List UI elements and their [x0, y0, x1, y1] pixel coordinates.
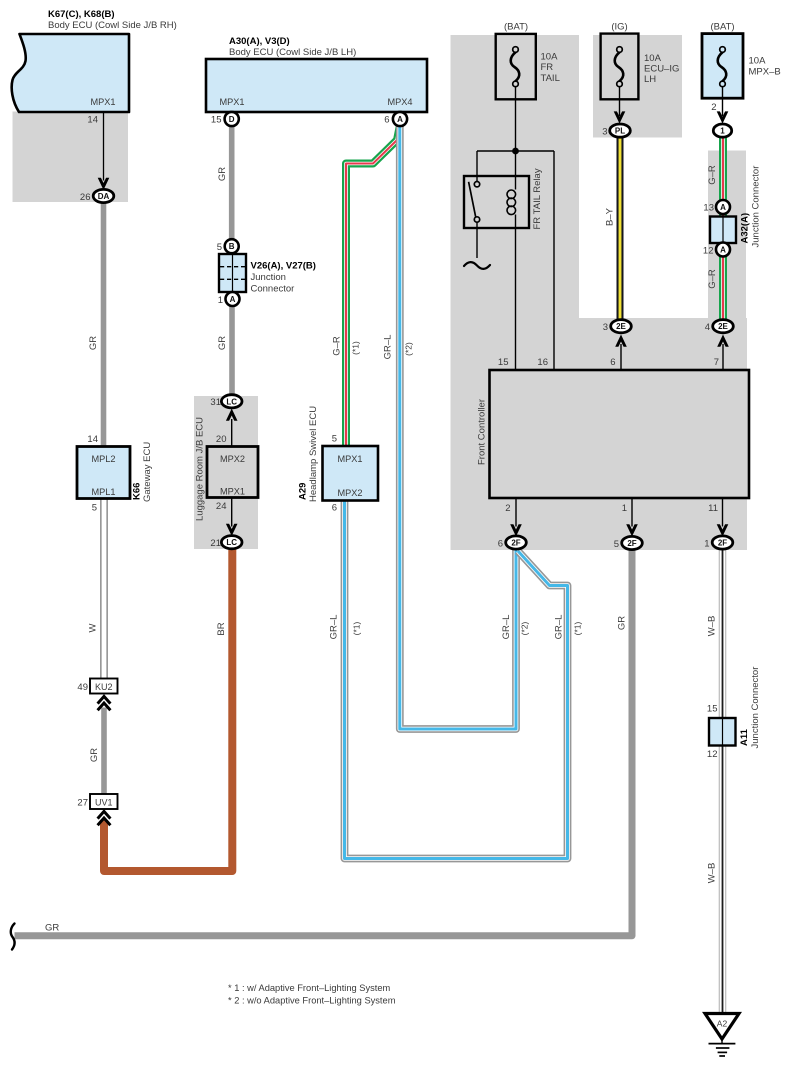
svg-text:15: 15 [211, 115, 222, 126]
svg-text:Body ECU (Cowl Side J/B LH): Body ECU (Cowl Side J/B LH) [229, 47, 356, 58]
svg-text:* 2 : w/o Adaptive Front–Light: * 2 : w/o Adaptive Front–Lighting System [228, 996, 396, 1006]
svg-text:FR TAIL Relay: FR TAIL Relay [532, 168, 543, 229]
svg-text:(*1): (*1) [351, 341, 361, 355]
svg-text:MPX–B: MPX–B [749, 66, 781, 77]
svg-text:2F: 2F [718, 539, 727, 548]
svg-text:LH: LH [644, 74, 656, 85]
svg-text:(*2): (*2) [404, 342, 414, 356]
svg-text:Connector: Connector [251, 284, 295, 295]
svg-text:49: 49 [77, 682, 88, 693]
svg-text:15: 15 [707, 704, 718, 715]
svg-text:2F: 2F [627, 539, 636, 548]
svg-text:D: D [229, 115, 235, 124]
svg-text:(BAT): (BAT) [710, 22, 734, 33]
svg-text:2E: 2E [718, 322, 728, 331]
svg-text:5: 5 [92, 503, 97, 514]
svg-text:W–B: W–B [707, 616, 718, 637]
svg-text:Junction Connector: Junction Connector [750, 667, 761, 749]
svg-text:(BAT): (BAT) [504, 22, 528, 33]
svg-text:6: 6 [610, 357, 615, 368]
svg-text:5: 5 [332, 434, 337, 445]
svg-text:13: 13 [703, 203, 714, 214]
svg-text:(*1): (*1) [352, 621, 362, 635]
svg-text:A: A [720, 246, 726, 255]
svg-text:1: 1 [218, 295, 223, 306]
svg-text:MPL2: MPL2 [91, 454, 115, 464]
svg-text:GR–L: GR–L [383, 335, 394, 360]
svg-text:Junction Connector: Junction Connector [751, 166, 762, 248]
svg-text:1: 1 [704, 539, 709, 550]
svg-text:GR: GR [617, 616, 628, 630]
svg-text:* 1 : w/ Adaptive Front–Lighti: * 1 : w/ Adaptive Front–Lighting System [228, 983, 391, 993]
svg-text:2: 2 [711, 102, 716, 113]
svg-text:A: A [397, 115, 403, 124]
svg-text:A: A [230, 295, 236, 304]
svg-text:MPX1: MPX1 [337, 454, 362, 464]
svg-text:DA: DA [98, 192, 110, 201]
svg-text:24: 24 [216, 501, 227, 512]
svg-text:3: 3 [603, 322, 608, 333]
svg-text:GR–L: GR–L [501, 615, 512, 640]
svg-text:21: 21 [210, 538, 221, 549]
svg-text:A30(A), V3(D): A30(A), V3(D) [229, 36, 290, 47]
svg-text:10A: 10A [541, 52, 559, 63]
svg-text:MPX1: MPX1 [219, 97, 244, 107]
svg-text:G–R: G–R [707, 269, 718, 289]
svg-text:UV1: UV1 [95, 798, 113, 808]
svg-text:12: 12 [707, 749, 718, 760]
svg-text:7: 7 [714, 357, 719, 368]
svg-text:26: 26 [80, 192, 91, 203]
svg-text:3: 3 [602, 127, 607, 138]
svg-text:GR: GR [88, 336, 99, 350]
svg-text:A32(A): A32(A) [740, 213, 751, 244]
svg-text:(*2): (*2) [520, 621, 530, 635]
svg-text:31: 31 [210, 397, 221, 408]
svg-text:K66: K66 [132, 483, 143, 500]
svg-text:14: 14 [87, 115, 98, 126]
svg-text:BR: BR [216, 622, 227, 635]
svg-text:G–R: G–R [707, 165, 718, 185]
svg-text:B–Y: B–Y [605, 207, 616, 226]
svg-text:G–R: G–R [332, 336, 343, 356]
svg-text:6: 6 [498, 539, 503, 550]
svg-text:MPX2: MPX2 [337, 488, 362, 498]
svg-text:MPL1: MPL1 [91, 487, 115, 497]
svg-text:Front Controller: Front Controller [477, 399, 488, 465]
svg-text:W: W [88, 623, 99, 632]
svg-text:Headlamp Swivel ECU: Headlamp Swivel ECU [308, 406, 319, 502]
svg-text:A29: A29 [298, 483, 309, 500]
svg-text:A2: A2 [717, 1019, 728, 1029]
svg-text:2F: 2F [511, 539, 520, 548]
svg-text:27: 27 [77, 798, 88, 809]
svg-text:A: A [720, 203, 726, 212]
svg-text:K67(C), K68(B): K67(C), K68(B) [48, 9, 115, 20]
svg-text:KU2: KU2 [95, 682, 113, 692]
svg-text:2E: 2E [616, 322, 626, 331]
svg-text:V26(A), V27(B): V26(A), V27(B) [251, 261, 316, 272]
svg-text:GR–L: GR–L [554, 615, 565, 640]
svg-text:5: 5 [217, 242, 222, 253]
svg-text:Gateway ECU: Gateway ECU [142, 442, 153, 502]
svg-text:16: 16 [537, 357, 548, 368]
svg-text:MPX1: MPX1 [220, 487, 245, 497]
svg-text:Junction: Junction [251, 272, 286, 283]
svg-text:10A: 10A [749, 56, 767, 67]
svg-text:W–B: W–B [707, 863, 718, 884]
svg-text:ECU–IG: ECU–IG [644, 64, 679, 75]
svg-text:Luggage Room J/B ECU: Luggage Room J/B ECU [195, 417, 206, 521]
svg-text:5: 5 [614, 539, 619, 550]
svg-text:Body ECU (Cowl Side J/B RH): Body ECU (Cowl Side J/B RH) [48, 20, 177, 31]
svg-text:6: 6 [332, 503, 337, 514]
svg-text:6: 6 [384, 115, 389, 126]
svg-text:GR–L: GR–L [329, 615, 340, 640]
svg-text:(*1): (*1) [573, 621, 583, 635]
svg-text:20: 20 [216, 434, 227, 445]
svg-text:15: 15 [498, 357, 509, 368]
svg-text:PL: PL [615, 127, 625, 136]
svg-text:1: 1 [720, 127, 725, 136]
svg-text:GR: GR [45, 923, 59, 934]
svg-text:(IG): (IG) [611, 22, 627, 33]
svg-text:GR: GR [217, 336, 228, 350]
svg-text:14: 14 [87, 434, 98, 445]
svg-text:A11: A11 [739, 728, 750, 746]
svg-text:LC: LC [226, 397, 237, 406]
svg-text:12: 12 [703, 246, 714, 257]
svg-text:11: 11 [708, 503, 718, 514]
svg-text:FR: FR [541, 62, 554, 73]
svg-text:MPX4: MPX4 [387, 97, 412, 107]
svg-text:TAIL: TAIL [541, 73, 560, 84]
svg-text:10A: 10A [644, 53, 662, 64]
svg-text:MPX2: MPX2 [220, 454, 245, 464]
svg-text:MPX1: MPX1 [90, 97, 115, 107]
svg-text:2: 2 [505, 503, 510, 514]
svg-text:B: B [229, 242, 235, 251]
svg-text:GR: GR [89, 748, 100, 762]
svg-text:4: 4 [705, 322, 710, 333]
svg-text:LC: LC [226, 538, 237, 547]
svg-text:GR: GR [217, 167, 228, 181]
svg-text:1: 1 [622, 503, 627, 514]
